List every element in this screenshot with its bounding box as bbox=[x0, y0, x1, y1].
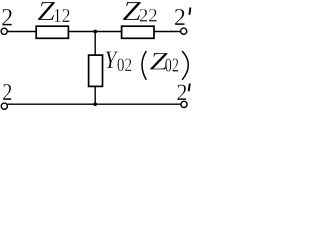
label Y02 (Z02) bbox=[104, 46, 188, 79]
svg-text:2: 2 bbox=[1, 4, 13, 31]
resistor Y02 (shunt impedance box) bbox=[89, 55, 103, 86]
wire: junction down to Y02 box bbox=[94, 32, 96, 56]
wire: bottom rail bbox=[7, 103, 180, 105]
wire: Z22 box to top-right terminal bbox=[154, 31, 181, 33]
terminal 2 (bottom-left) bbox=[1, 103, 7, 109]
node: bottom junction bbox=[93, 102, 97, 106]
label Z12 bbox=[37, 0, 70, 27]
node label 2 (top-left) bbox=[1, 4, 13, 31]
wire: Y02 box down to bottom wire bbox=[94, 86, 96, 104]
svg-text:12: 12 bbox=[53, 5, 70, 27]
svg-text:22: 22 bbox=[139, 6, 158, 27]
wire: top-left terminal to Z12 box bbox=[7, 31, 36, 33]
svg-text:02: 02 bbox=[165, 54, 179, 76]
svg-text:02: 02 bbox=[117, 54, 132, 75]
node label 2' (top-right) bbox=[174, 5, 191, 31]
open paren bbox=[142, 51, 146, 80]
node label 2 (bottom-left) bbox=[2, 78, 12, 105]
node label 2' (bottom-right) bbox=[177, 79, 190, 105]
node: top junction bbox=[93, 30, 97, 34]
svg-text:2: 2 bbox=[2, 78, 12, 105]
terminal 2 (top-left) bbox=[1, 28, 7, 34]
svg-text:2: 2 bbox=[177, 79, 188, 105]
terminal 2' (top-right) bbox=[181, 28, 187, 34]
terminal 2' (bottom-right) bbox=[181, 101, 187, 107]
resistor Z12 (series impedance box) bbox=[36, 26, 68, 38]
svg-text:2: 2 bbox=[174, 5, 186, 31]
resistor Z22 (series impedance box) bbox=[122, 26, 154, 38]
close paren bbox=[182, 51, 188, 80]
wire: Z12 box to Z22 box bbox=[68, 31, 122, 33]
label Z22 bbox=[122, 0, 157, 27]
